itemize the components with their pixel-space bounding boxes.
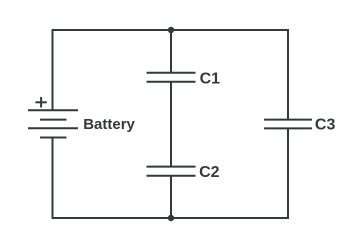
wire middle vertical between C1 and C2 [170, 82, 172, 167]
capacitor C3 [264, 120, 312, 129]
node junction top [168, 27, 174, 33]
battery Battery [28, 110, 78, 137]
svg-text:C3: C3 [315, 117, 336, 134]
battery plus sign [35, 97, 46, 108]
wire middle vertical upper (to C1) [170, 30, 172, 73]
svg-text:C1: C1 [200, 70, 221, 87]
capacitor C2 [147, 167, 196, 176]
wire right vertical upper (to C3) [287, 29, 289, 120]
wire top horizontal [53, 29, 289, 31]
node junction bottom [168, 215, 174, 221]
wire bottom horizontal [53, 217, 289, 219]
wire right vertical lower (from C3) [287, 128, 289, 219]
capacitor C1 [147, 73, 196, 82]
svg-text:C2: C2 [199, 164, 220, 181]
wire left vertical lower (from battery -) [52, 138, 54, 220]
wire left vertical upper (to battery +) [52, 29, 54, 110]
wire middle vertical lower (from C2) [170, 176, 172, 218]
svg-text:Battery: Battery [83, 116, 135, 133]
